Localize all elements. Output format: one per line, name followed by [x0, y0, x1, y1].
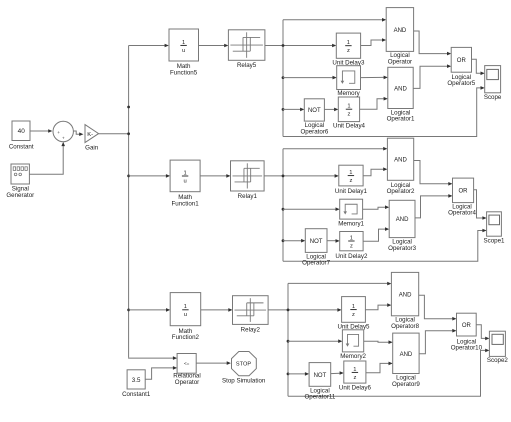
wire Math Function5 to Relay5	[199, 45, 225, 47]
junction dot trunk3 memory row	[287, 340, 290, 343]
svg-text:Gain: Gain	[85, 145, 99, 152]
svg-text:OR: OR	[457, 58, 467, 64]
wire trunk1 to Memory	[283, 77, 333, 79]
wire Unit Delay6 to Logical Operator9 AND input 2	[366, 363, 389, 372]
svg-text:+: +	[62, 136, 65, 141]
junction dot trunk1 relay row	[282, 44, 285, 47]
svg-text:u: u	[183, 178, 186, 184]
svg-text:Unit Delay1: Unit Delay1	[335, 188, 368, 195]
wire trunk2 bottom loop to Scope1 input 2	[283, 231, 483, 262]
wire Logical Operator8 to OR input 1	[419, 295, 453, 319]
svg-text:Scope: Scope	[484, 94, 502, 101]
junction dot gain tee	[127, 132, 130, 135]
wire Relay1 to subsystem trunk 2 and Unit Delay1	[264, 175, 335, 177]
memory block Memory1	[340, 199, 363, 219]
svg-text:Operator7: Operator7	[302, 260, 330, 267]
svg-text:u: u	[184, 312, 187, 318]
constant block Constant value 40	[12, 121, 30, 141]
svg-text:OR: OR	[459, 189, 469, 195]
sum junction block	[53, 121, 73, 141]
main trunk wire vertical	[128, 46, 130, 358]
svg-text:Unit Delay5: Unit Delay5	[338, 323, 371, 330]
svg-text:NOT: NOT	[314, 373, 327, 379]
junction dot trunk3 not row	[287, 373, 290, 376]
wire Unit Delay5 to Logical Operator8 AND input 2	[365, 305, 387, 310]
stop simulation block octagon	[232, 352, 257, 376]
memory block Memory	[337, 66, 361, 90]
junction dot trunk1 memory row	[282, 76, 285, 79]
svg-text:z: z	[348, 112, 351, 118]
svg-text:1: 1	[347, 40, 350, 46]
scope Scope	[485, 66, 501, 93]
unit delay block Unit Delay6	[344, 361, 366, 383]
junction dot row2 tee	[127, 175, 130, 178]
wire Memory2 to Logical Operator9 AND input 1	[364, 341, 389, 342]
wire Signal Generator to Sum	[29, 146, 63, 175]
wire Memory1 to Logical Operator3 AND input 1	[363, 207, 386, 209]
svg-text:3.5: 3.5	[132, 377, 141, 384]
wire trunk3 top to Logical Operator8 AND input 1	[288, 282, 387, 284]
wire Logical Operator6 to Unit Delay4	[324, 108, 334, 110]
svg-text:u: u	[182, 48, 185, 54]
subsystem trunk 2 vertical wire	[282, 149, 284, 262]
not block Logical Operator6	[304, 99, 324, 121]
wire Relay2 to subsystem trunk 3 and Unit Delay5	[268, 309, 338, 311]
svg-text:z: z	[352, 312, 355, 318]
svg-text:Memory1: Memory1	[338, 221, 364, 228]
svg-text:OR: OR	[462, 323, 472, 329]
svg-text:AND: AND	[394, 158, 407, 164]
wire Logical Operator3 to OR input 2	[415, 196, 449, 218]
math function block Math Function2	[170, 293, 201, 326]
svg-text:Operator9: Operator9	[392, 381, 420, 388]
wire trunk2 to Logical Operator7 NOT	[283, 240, 301, 242]
svg-text:1: 1	[184, 304, 187, 310]
svg-text:AND: AND	[394, 28, 407, 34]
junction dot trunk2 memory row	[282, 208, 285, 211]
wire Math Function2 to Relay2	[201, 309, 229, 311]
svg-text:Operator: Operator	[175, 379, 199, 386]
or block Logical Operator4	[453, 178, 474, 203]
wire Unit Delay1 to Logical Operator2 AND input 2	[363, 169, 383, 176]
svg-text:Operator11: Operator11	[304, 394, 335, 401]
wire Unit Delay3 to AND input 2	[361, 40, 383, 46]
or block Logical Operator10	[457, 313, 477, 336]
wire Memory to Logical Operator1 AND input 1	[361, 76, 384, 78]
wire trunk2 top to Logical Operator2 AND input 1	[283, 148, 383, 150]
signal generator block	[11, 164, 29, 184]
svg-text:1: 1	[347, 104, 350, 110]
and block Logical Operator	[386, 8, 413, 52]
svg-text:1: 1	[349, 170, 352, 176]
svg-text:<=: <=	[184, 361, 190, 366]
svg-text:AND: AND	[396, 217, 409, 223]
and block Logical Operator8	[391, 272, 418, 315]
junction dot trunk1 not row	[282, 108, 285, 111]
or block Logical Operator5	[451, 47, 471, 72]
svg-text:Generator: Generator	[6, 192, 34, 199]
svg-text:Function2: Function2	[172, 334, 200, 341]
relay block Relay1	[231, 161, 265, 191]
svg-text:Unit Delay6: Unit Delay6	[339, 384, 372, 391]
svg-text:z: z	[350, 243, 353, 249]
wire Math Function1 to Relay1	[200, 175, 226, 177]
svg-text:Operator3: Operator3	[388, 245, 416, 252]
wire Relay5 to subsystem trunk 1 and Unit Delay3	[265, 45, 332, 47]
wire Logical Operator11 to Unit Delay6	[331, 372, 340, 374]
subsystem trunk 1 vertical wire	[282, 20, 284, 137]
svg-text:Operator6: Operator6	[300, 128, 328, 135]
svg-text:Relay2: Relay2	[241, 326, 261, 333]
junction dot on trunk	[127, 106, 130, 109]
svg-text:Scope2: Scope2	[487, 357, 509, 364]
svg-text:AND: AND	[394, 86, 407, 92]
and block Logical Operator3	[389, 200, 415, 237]
and block Logical Operator1	[388, 67, 413, 108]
wire Logical Operator5 to Scope input 1	[472, 59, 482, 73]
wire trunk to Math Function5	[129, 45, 165, 47]
wire Constant to Sum	[30, 130, 49, 132]
svg-text:NOT: NOT	[308, 108, 321, 114]
wire trunk1 bottom loop to Scope input 2	[283, 88, 481, 137]
wire trunk3 bottom loop to Scope2 input 2	[288, 350, 486, 396]
svg-text:Relay5: Relay5	[237, 62, 257, 69]
svg-text:+: +	[57, 130, 60, 135]
svg-text:Scope1: Scope1	[484, 238, 506, 245]
svg-text:AND: AND	[400, 352, 413, 358]
wire Logical Operator4 to Scope1 input 1	[474, 190, 484, 218]
wire Logical Operator7 to Unit Delay2	[327, 240, 336, 242]
wire trunk to Relational Operator input 1	[129, 356, 174, 359]
wire Constant1 to Relational Operator input 2	[145, 368, 173, 379]
svg-text:NOT: NOT	[310, 239, 323, 245]
svg-text:Constant: Constant	[9, 144, 34, 151]
svg-text:Operator10: Operator10	[451, 345, 483, 352]
memory block Memory2	[342, 330, 363, 352]
wire Unit Delay2 to Logical Operator3 AND input 2	[363, 229, 385, 241]
wire Logical Operator1 AND to OR input 2	[413, 66, 447, 88]
constant block Constant1 value 3.5	[127, 370, 145, 389]
svg-text:z: z	[349, 178, 352, 184]
svg-text:Unit Delay4: Unit Delay4	[333, 123, 366, 130]
wire trunk to Math Function1	[129, 175, 167, 177]
wire trunk3 to Logical Operator11 NOT	[288, 373, 305, 375]
not block Logical Operator7	[305, 229, 327, 253]
wire Logical Operator9 to OR input 2	[419, 331, 452, 354]
wire Sum to Gain	[73, 131, 79, 134]
relay block Relay2	[233, 296, 269, 325]
svg-text:1: 1	[352, 304, 355, 310]
wire trunk3 to Memory2	[288, 340, 338, 342]
svg-text:Operator: Operator	[388, 58, 412, 65]
relay block Relay5	[228, 30, 265, 61]
junction dot trunk2 not row	[282, 239, 285, 242]
svg-text:40: 40	[18, 128, 26, 135]
svg-text:z: z	[347, 48, 350, 54]
svg-text:1: 1	[353, 367, 356, 373]
svg-text:Relay1: Relay1	[238, 193, 258, 200]
svg-text:STOP: STOP	[236, 361, 251, 367]
scope Scope2	[489, 331, 505, 356]
gain block Gain	[85, 125, 99, 143]
svg-text:1: 1	[182, 40, 185, 46]
wire trunk1 top to Logical Operator AND input 1	[283, 19, 382, 21]
unit delay block Unit Delay1	[339, 165, 363, 186]
scope Scope1	[487, 212, 502, 236]
unit delay block Unit Delay2	[340, 232, 363, 251]
unit delay block Unit Delay3	[336, 33, 360, 58]
wire trunk2 to Memory1	[283, 208, 336, 210]
svg-text:AND: AND	[399, 292, 412, 298]
svg-text:Operator8: Operator8	[391, 323, 419, 330]
wire Logical Operator10 to Scope2 input 1	[476, 325, 486, 339]
wire Unit Delay4 to Logical Operator1 AND input 2	[360, 99, 384, 110]
svg-text:Stop Simulation: Stop Simulation	[222, 377, 266, 384]
relational operator block	[177, 354, 196, 374]
junction dot trunk2 relay row	[282, 175, 285, 178]
wire Relational Operator to Stop Simulation	[196, 362, 227, 364]
svg-text:1: 1	[183, 170, 186, 176]
and block Logical Operator2	[387, 138, 413, 180]
svg-text:1: 1	[350, 235, 353, 241]
svg-text:z: z	[353, 375, 356, 381]
math function block Math Function1	[170, 160, 200, 192]
wire Gain to trunk	[99, 133, 129, 135]
svg-text:K-: K-	[87, 132, 93, 138]
svg-text:Memory: Memory	[337, 90, 360, 97]
junction dot row3 tee	[127, 309, 130, 312]
junction dot trunk3 relay row	[287, 309, 290, 312]
wire Logical Operator2 to OR input 1	[414, 161, 449, 184]
not block Logical Operator11	[309, 363, 331, 387]
svg-text:Function1: Function1	[172, 200, 200, 207]
svg-text:Unit Delay2: Unit Delay2	[335, 253, 368, 260]
math function block Math Function5	[169, 29, 199, 61]
svg-text:Operator2: Operator2	[387, 188, 415, 195]
unit delay block Unit Delay4	[338, 97, 359, 122]
svg-text:Function5: Function5	[170, 69, 198, 76]
and block Logical Operator9	[393, 333, 419, 373]
wire trunk1 to Logical Operator6 NOT	[283, 108, 300, 110]
subsystem trunk 3 vertical wire	[287, 283, 289, 396]
wire Logical Operator AND to OR input 1	[414, 31, 448, 54]
svg-text:Memory2: Memory2	[340, 353, 366, 360]
svg-text:Constant1: Constant1	[122, 391, 151, 398]
wire trunk to Math Function2	[129, 309, 167, 311]
unit delay block Unit Delay5	[342, 297, 366, 323]
svg-text:Operator5: Operator5	[447, 80, 475, 87]
svg-text:Operator1: Operator1	[387, 116, 415, 123]
svg-text:Operator4: Operator4	[448, 210, 476, 217]
